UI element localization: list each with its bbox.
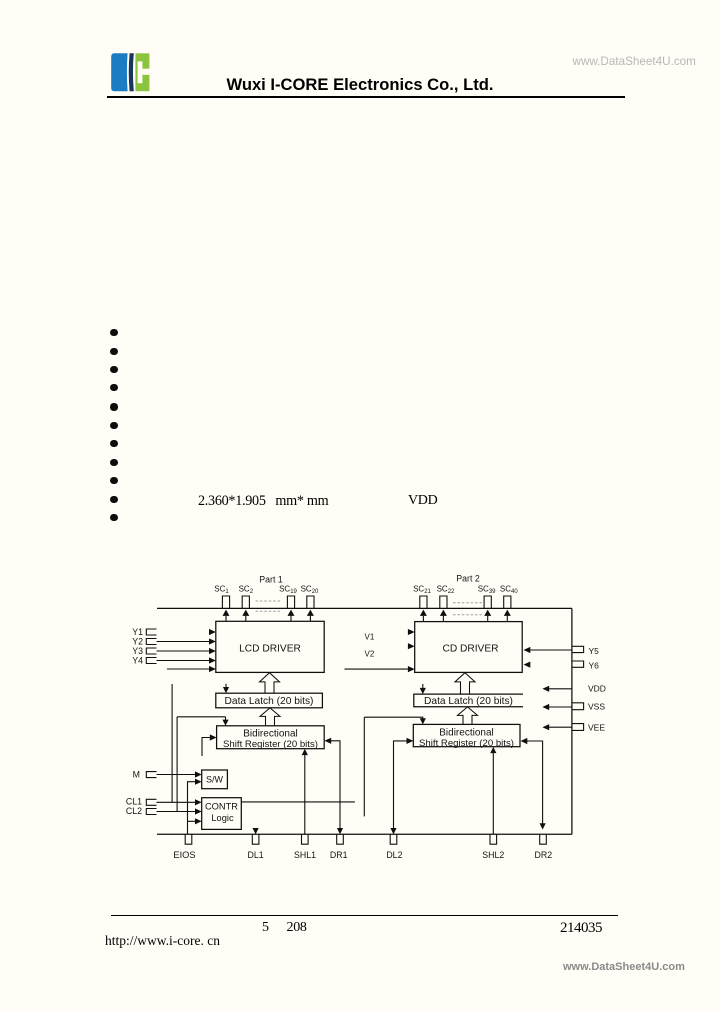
arrowhead CONTR input 3 bbox=[195, 818, 202, 824]
svg-text:Part 1: Part 1 bbox=[259, 574, 283, 584]
block U1 LCD DRIVER bbox=[216, 621, 324, 672]
svg-text:M: M bbox=[133, 770, 140, 780]
arrowhead input 5 part 1 bbox=[209, 666, 216, 672]
svg-text:SC19: SC19 bbox=[279, 585, 297, 596]
wire DR1 bbox=[330, 741, 340, 829]
svg-text:CL2: CL2 bbox=[126, 806, 142, 816]
svg-text:Y5: Y5 bbox=[589, 646, 600, 656]
pin SC22 bbox=[440, 596, 447, 609]
block U2 CD DRIVER bbox=[415, 622, 523, 673]
body text line bbox=[198, 493, 328, 510]
arrowhead CL2 bbox=[195, 808, 202, 814]
wire shift register 2 top strobe bbox=[364, 717, 423, 719]
svg-text:S/W: S/W bbox=[206, 775, 224, 785]
svg-text:Shift Register (20 bits): Shift Register (20 bits) bbox=[223, 739, 318, 750]
arrowhead input 3 part 2 bbox=[408, 666, 415, 672]
wire shift register 1 left elbow bbox=[202, 738, 210, 757]
svg-text:VDD: VDD bbox=[588, 684, 606, 694]
arrowhead S/W input 2 bbox=[195, 779, 202, 785]
svg-text:CL1: CL1 bbox=[126, 797, 142, 807]
svg-text:SC20: SC20 bbox=[301, 585, 319, 596]
wire mid riser bbox=[363, 717, 365, 816]
arrowhead M into S/W bbox=[195, 771, 202, 777]
svg-text:DR2: DR2 bbox=[534, 850, 552, 860]
footer rule bbox=[111, 915, 618, 916]
pin SC2 bbox=[242, 596, 249, 609]
pin SC21 bbox=[420, 596, 427, 609]
block data latch 2 bbox=[414, 694, 523, 707]
outer box top bbox=[157, 607, 572, 609]
block arrow latch2 to driver2 bbox=[455, 673, 475, 694]
pin M bbox=[146, 772, 156, 778]
wire DL2 bbox=[394, 741, 408, 829]
pin SHL2 bbox=[490, 834, 497, 844]
outer box bottom bbox=[157, 833, 572, 835]
arrowhead Y3 bbox=[209, 648, 216, 654]
pin Y6 bbox=[572, 661, 584, 667]
arrowhead VSS bbox=[542, 704, 549, 710]
footer page numbers bbox=[262, 920, 269, 936]
arrowhead DR2 down bbox=[540, 823, 546, 829]
bottom watermark bbox=[563, 961, 685, 973]
svg-text:Y6: Y6 bbox=[589, 660, 600, 670]
pin SHL1 bbox=[302, 834, 309, 844]
svg-text:SC2: SC2 bbox=[239, 585, 254, 596]
arrowhead DL1 down bbox=[253, 828, 259, 834]
pin FCS bbox=[185, 834, 192, 844]
wire CL1 riser bbox=[171, 684, 173, 802]
arrowhead shift register 1 top strobe bbox=[222, 720, 228, 726]
svg-text:Data Latch (20 bits): Data Latch (20 bits) bbox=[225, 696, 314, 707]
svg-text:Shift Register (20 bits): Shift Register (20 bits) bbox=[419, 738, 514, 749]
dashed ellipsis part 2 bbox=[453, 602, 482, 604]
svg-text:Logic: Logic bbox=[211, 813, 234, 823]
wire latch 1 strobe bbox=[225, 684, 227, 688]
svg-text:SHL1: SHL1 bbox=[294, 850, 316, 860]
pin Y4 bbox=[146, 658, 156, 664]
pin VEE bbox=[572, 724, 584, 731]
dashed ellipsis part 1 bbox=[256, 601, 483, 615]
pin DL1 bbox=[252, 834, 259, 844]
header rule bbox=[107, 96, 625, 98]
wire FCS riser bbox=[188, 782, 196, 835]
outer box right bbox=[571, 608, 573, 834]
pin CL1 bbox=[146, 799, 156, 805]
block shift register 1 bbox=[217, 726, 325, 749]
wire CL2 riser bbox=[176, 717, 178, 812]
arrowhead latch 2 strobe bbox=[420, 688, 426, 694]
svg-text:CD DRIVER: CD DRIVER bbox=[442, 644, 498, 655]
wire shift register 1 top strobe bbox=[177, 717, 225, 720]
svg-text:SC39: SC39 bbox=[478, 585, 496, 596]
svg-text:Bidirectional: Bidirectional bbox=[243, 729, 297, 740]
arrowhead SHL2 up bbox=[490, 747, 496, 753]
wire VSS bbox=[548, 706, 572, 708]
pin SC19 bbox=[287, 596, 294, 609]
wire input 5 part 1 bbox=[167, 668, 210, 670]
arrowhead DR1 left bbox=[324, 738, 331, 744]
svg-text:Y4: Y4 bbox=[132, 656, 143, 666]
arrowhead Y1 bbox=[209, 629, 216, 635]
arrowhead DL2 down bbox=[390, 828, 396, 834]
arrowhead DR2 left bbox=[521, 738, 528, 744]
pin DL2 bbox=[390, 834, 397, 844]
svg-text:Bidirectional: Bidirectional bbox=[439, 727, 493, 738]
pin CL2 bbox=[146, 809, 156, 815]
arrowhead shift register 1 left bbox=[210, 734, 217, 740]
svg-text:DL2: DL2 bbox=[386, 850, 402, 860]
wire SHL1 bbox=[304, 755, 306, 835]
wire SHL2 bbox=[492, 753, 494, 835]
block shift register 2 bbox=[413, 724, 520, 746]
top watermark bbox=[573, 55, 696, 68]
block S/W bbox=[202, 770, 228, 789]
wire CONTR output bus bbox=[241, 801, 355, 803]
block data latch 1 bbox=[216, 693, 323, 708]
pin Y2 bbox=[146, 639, 156, 645]
svg-text:Y2: Y2 bbox=[132, 637, 143, 647]
svg-text:Y3: Y3 bbox=[132, 646, 143, 656]
svg-text:Y1: Y1 bbox=[132, 627, 143, 637]
wire VEE bbox=[548, 726, 572, 728]
arrowhead V1 bbox=[408, 629, 415, 635]
svg-text:CONTR: CONTR bbox=[205, 802, 238, 812]
svg-text:SC1: SC1 bbox=[214, 585, 229, 596]
footer url bbox=[105, 933, 220, 949]
svg-text:V2: V2 bbox=[365, 650, 375, 659]
arrowhead DL2 right bbox=[407, 738, 414, 744]
arrowhead Y5 bbox=[524, 647, 531, 653]
wire latch 2 strobe bbox=[422, 684, 424, 689]
pin SC20 bbox=[307, 596, 314, 609]
pin VSS bbox=[572, 703, 584, 710]
svg-text:V1: V1 bbox=[365, 633, 375, 642]
arrowhead VEE bbox=[542, 724, 549, 730]
svg-text:SC22: SC22 bbox=[437, 585, 455, 596]
block CONTR logic bbox=[202, 798, 242, 830]
svg-text:SC21: SC21 bbox=[413, 585, 431, 596]
arrowhead latch 1 strobe bbox=[223, 687, 229, 693]
wire VDD bbox=[548, 688, 572, 690]
arrowhead shift register 2 top strobe bbox=[420, 718, 426, 724]
svg-text:VSS: VSS bbox=[588, 702, 605, 712]
pin SC1 bbox=[222, 596, 229, 609]
block arrow shiftreg1 to latch1 bbox=[260, 708, 280, 726]
bullets bbox=[110, 329, 117, 336]
logo I-CORE bbox=[0, 0, 200, 110]
wire input 3 part 2 bbox=[345, 668, 409, 670]
arrowhead Y2 bbox=[209, 638, 216, 644]
pin Y3 bbox=[146, 648, 156, 654]
pin DR2 bbox=[540, 834, 547, 844]
wire DR2 bbox=[527, 741, 543, 824]
pin Y5 bbox=[572, 646, 584, 652]
block arrow latch1 to driver1 bbox=[260, 673, 280, 694]
pin SC40 bbox=[504, 596, 511, 609]
arrowhead V2 bbox=[408, 643, 415, 649]
svg-text:Data Latch (20 bits): Data Latch (20 bits) bbox=[424, 696, 513, 707]
pin DR1 bbox=[337, 834, 344, 844]
arrowhead SHL1 up bbox=[302, 749, 308, 755]
arrowhead CL1 bbox=[195, 799, 202, 805]
svg-text:SHL2: SHL2 bbox=[482, 850, 504, 860]
wire Y5 bbox=[530, 649, 572, 651]
block arrow shiftreg2 to latch2 bbox=[458, 707, 478, 725]
pin Y1 bbox=[146, 629, 156, 635]
arrowhead Y4 bbox=[209, 657, 216, 663]
arrowhead VDD bbox=[542, 686, 549, 692]
header title bbox=[0, 75, 720, 95]
svg-text:EIOS: EIOS bbox=[173, 850, 195, 860]
pin SC39 bbox=[484, 596, 491, 609]
svg-text:VEE: VEE bbox=[588, 722, 605, 732]
arrowhead DR1 down bbox=[337, 828, 343, 834]
svg-text:SC40: SC40 bbox=[500, 585, 518, 596]
arrowheads SC outputs part 2 bbox=[420, 610, 427, 616]
arrowhead Y6 bbox=[524, 662, 531, 668]
arrowheads SC outputs part 1 bbox=[223, 610, 230, 616]
svg-text:DL1: DL1 bbox=[248, 850, 264, 860]
svg-text:Part 2: Part 2 bbox=[456, 573, 480, 583]
svg-text:DR1: DR1 bbox=[330, 850, 348, 860]
svg-text:LCD DRIVER: LCD DRIVER bbox=[239, 644, 301, 655]
